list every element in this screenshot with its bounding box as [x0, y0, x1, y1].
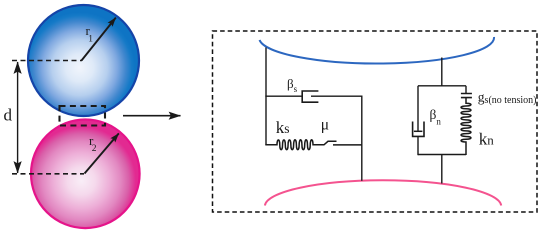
spring k_n [461, 98, 471, 155]
wire: bottom bar of normal branch [418, 154, 466, 156]
damper beta_s piston rod [311, 95, 363, 97]
dimension arrow d [17, 62, 19, 173]
wire: down to pink arc [441, 155, 443, 184]
damper beta_n cylinder [413, 122, 424, 137]
svg-text:βs: βs [287, 76, 298, 94]
gap element g_s wire [465, 86, 467, 94]
sphere 1 (blue, radius r1) [28, 5, 139, 116]
contact zone dashed rectangle [60, 106, 106, 126]
svg-text:d: d [4, 106, 13, 125]
wire: right branch vertical from blue arc [441, 58, 443, 87]
damper beta_s cylinder [302, 91, 318, 102]
arrow to model [123, 115, 181, 117]
wire: right vertical of tangential branch [361, 96, 363, 181]
wire: top bar of normal branch [418, 85, 466, 87]
svg-text:ks: ks [276, 118, 290, 137]
dashed centerline of sphere 1 [12, 60, 82, 62]
damper beta_n rod [417, 86, 419, 132]
sphere 1 surface (blue arc) [260, 37, 495, 64]
wire: left branch vertical from blue arc [265, 48, 267, 145]
svg-text:βn: βn [430, 107, 442, 127]
wire: below beta_n [417, 136, 419, 155]
sphere 2 surface (pink arc) [265, 180, 501, 205]
sphere 2 (pink, radius r2) [31, 120, 140, 229]
friction slider mu [313, 141, 362, 145]
damper beta_n piston [414, 130, 423, 132]
svg-text:gs(no tension): gs(no tension) [478, 90, 537, 107]
radius arrow r1 [82, 18, 116, 61]
dashed centerline of sphere 2 [12, 173, 84, 175]
dashed model box [213, 31, 538, 212]
gap element g_s plates [461, 94, 472, 98]
radius arrow r2 [85, 133, 119, 173]
svg-text:kn: kn [479, 130, 495, 149]
wire: into damper beta_s [265, 95, 301, 97]
spring k_s [265, 140, 313, 150]
svg-text:μ: μ [321, 116, 329, 133]
